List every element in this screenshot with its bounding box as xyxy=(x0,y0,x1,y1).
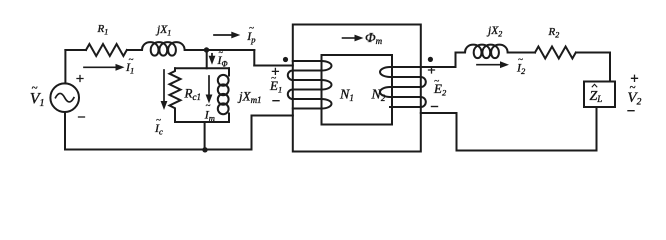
wire bottom rail right xyxy=(457,150,597,152)
minus E2 xyxy=(432,106,438,108)
arrow Im xyxy=(208,76,210,97)
svg-text:E2: E2 xyxy=(433,81,447,98)
svg-text:Φm: Φm xyxy=(365,31,383,46)
svg-text:ZL: ZL xyxy=(590,89,603,104)
plus V2 xyxy=(632,75,638,81)
winding N2 xyxy=(380,67,426,107)
resistor R1 xyxy=(86,44,127,56)
wire bottom rail left xyxy=(65,149,252,151)
svg-text:E1: E1 xyxy=(269,78,282,95)
arrow I2 xyxy=(477,64,502,66)
wire step to winding N1 xyxy=(254,65,292,67)
plus E2 xyxy=(429,67,435,73)
polarity dot N1 xyxy=(283,57,288,62)
wire shunt feed xyxy=(206,50,208,68)
svg-text:jX2: jX2 xyxy=(486,25,502,39)
source sine wave xyxy=(56,93,74,102)
svg-text:jXm1: jXm1 xyxy=(237,89,262,106)
svg-text:R1: R1 xyxy=(97,23,109,37)
wire load bottom xyxy=(596,107,598,151)
plus source xyxy=(77,76,83,82)
wire jX2 to R2 xyxy=(509,52,535,54)
junction dot top xyxy=(204,47,209,52)
wire N2 exit xyxy=(421,113,457,151)
polarity dot N2 xyxy=(428,57,433,62)
wire R2 to corner xyxy=(576,52,610,54)
svg-text:jX1: jX1 xyxy=(155,24,171,38)
arrow Iphi xyxy=(211,54,213,59)
wire shunt exit xyxy=(204,122,206,150)
svg-text:V1: V1 xyxy=(30,91,45,110)
source V1 circle xyxy=(50,83,79,112)
svg-text:N1: N1 xyxy=(339,88,354,104)
resistor Rc1 xyxy=(170,68,181,122)
wire R1 to jX1 xyxy=(127,49,142,51)
wire source top vertical xyxy=(64,50,66,83)
minus source xyxy=(79,116,85,118)
svg-text:N2: N2 xyxy=(371,88,386,104)
inductor jX2 xyxy=(465,45,509,59)
label ZL xyxy=(592,84,597,87)
parallel box bottom edge xyxy=(175,121,229,123)
wire source bottom vertical xyxy=(64,112,66,150)
wire jX1 to step corner xyxy=(186,49,254,51)
wire top rail left xyxy=(65,49,86,51)
junction dot bottom xyxy=(202,147,207,152)
svg-text:V2: V2 xyxy=(627,90,641,108)
load box ZL xyxy=(584,82,615,108)
wire corner down to load xyxy=(609,53,611,82)
flux arrow xyxy=(343,37,357,39)
svg-text:R2: R2 xyxy=(548,26,560,40)
arrow Ic xyxy=(163,70,165,104)
minus V2 xyxy=(628,110,634,112)
arrow I1 xyxy=(84,66,117,68)
wire N1 exit xyxy=(252,116,293,150)
svg-text:Rc1: Rc1 xyxy=(184,85,201,102)
svg-text:Ic: Ic xyxy=(154,121,163,137)
arrow Ip xyxy=(214,34,233,36)
inductor jXm1 xyxy=(228,68,230,75)
transformer outer box xyxy=(293,25,421,152)
inductor jX1 xyxy=(142,42,186,56)
winding N1 xyxy=(288,61,332,109)
transformer inner box xyxy=(322,55,393,125)
wire step down xyxy=(253,50,255,66)
minus E1 xyxy=(273,100,279,102)
resistor R2 xyxy=(535,47,576,59)
parallel box top edge xyxy=(175,67,229,69)
plus E1 xyxy=(272,68,278,74)
svg-text:Ip: Ip xyxy=(246,29,255,45)
wire N2 feed xyxy=(421,53,465,68)
